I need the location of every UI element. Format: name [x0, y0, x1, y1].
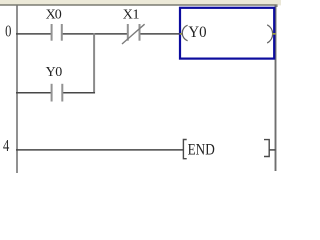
contact Y0 right bar — [61, 84, 63, 102]
svg-text:END: END — [188, 142, 215, 159]
wire: rung 0, rail to X0 left bar — [16, 33, 51, 35]
svg-text:X0: X0 — [46, 8, 62, 23]
contact X1 right bar — [139, 24, 141, 41]
wire: rung 0, X1 right bar to coil Y0 — [140, 33, 183, 35]
contact X1 NC slash — [122, 24, 145, 44]
selection cursor (blue rectangle) — [180, 8, 274, 59]
coil Y0 left parenthesis — [182, 25, 187, 41]
wire: rung 4, rail to END bracket — [16, 149, 183, 151]
wire: rung 0, X0 right bar to X1 left bar — [62, 33, 127, 35]
wire: END bracket to right rail — [269, 149, 275, 151]
END left bracket — [183, 140, 186, 159]
contact X1 left bar — [127, 24, 129, 41]
svg-text:Y0: Y0 — [188, 24, 206, 41]
svg-text:0: 0 — [5, 22, 11, 41]
contact X0 left bar — [51, 24, 53, 41]
svg-text:Y0: Y0 — [46, 65, 63, 80]
toolbar band top — [0, 0, 281, 5]
junction vertical wire (branch to rung 0) — [93, 33, 95, 93]
toolbar right corner patch — [277, 0, 282, 5]
contact Y0 left bar — [51, 84, 53, 102]
svg-text:1: 1 — [132, 8, 139, 23]
svg-text:4: 4 — [3, 136, 9, 155]
left power rail — [16, 6, 18, 174]
toolbar line end cap — [276, 4, 278, 7]
wire: branch, rail to Y0 left bar — [16, 92, 51, 94]
wire: branch, Y0 right bar to junction — [62, 92, 95, 94]
wire handle dot left (yellow) — [180, 33, 182, 35]
contact X0 right bar — [61, 24, 63, 41]
toolbar bottom edge line — [0, 4, 277, 5]
wire handle dot right (yellow) — [272, 33, 275, 35]
right power rail — [275, 6, 277, 172]
END right bracket — [264, 140, 269, 157]
coil Y0 right parenthesis — [267, 25, 272, 43]
